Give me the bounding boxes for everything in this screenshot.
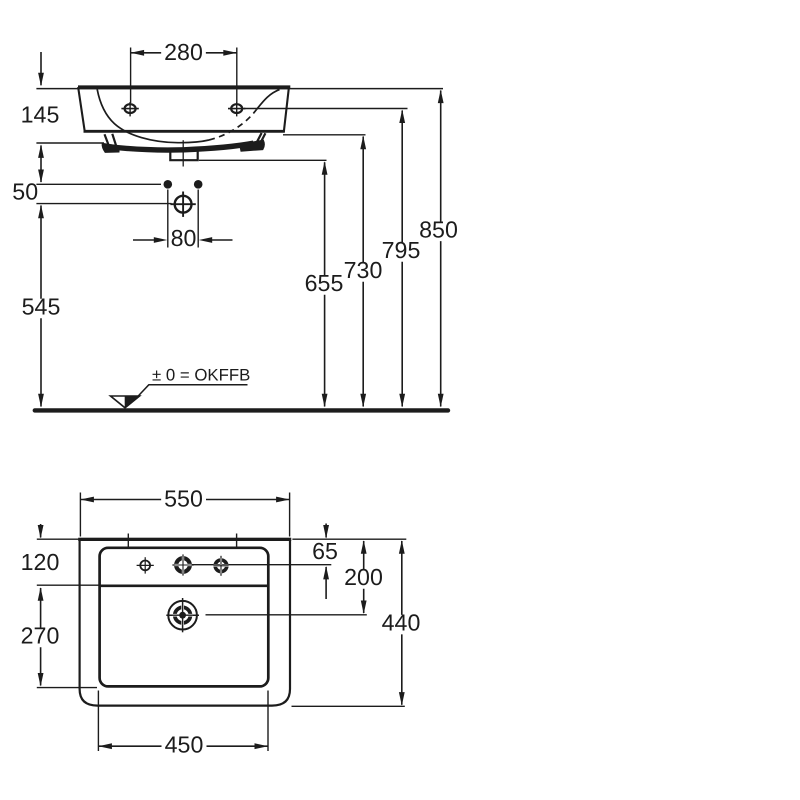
dim 850 line bbox=[438, 90, 444, 408]
dim 80 arrows bbox=[133, 237, 233, 243]
ext line 730 level bbox=[283, 134, 366, 136]
ledge hole middle bbox=[172, 554, 193, 575]
plan inner rim bbox=[100, 548, 269, 687]
ext line fixing dots level bbox=[36, 183, 161, 185]
ledge hole right bbox=[214, 556, 229, 576]
svg-text:80: 80 bbox=[171, 225, 197, 251]
plan ledge line bbox=[101, 584, 268, 587]
svg-text:50: 50 bbox=[12, 179, 38, 205]
dim 80 text bbox=[171, 225, 197, 251]
dim 850 text bbox=[416, 217, 461, 243]
dim 200 text bbox=[341, 564, 386, 590]
plan outer outline bbox=[78, 539, 291, 706]
dim 795 text bbox=[379, 237, 424, 263]
basin front outline bbox=[78, 87, 290, 131]
ext line underside level bbox=[36, 142, 104, 144]
plan ledge ext left bbox=[37, 584, 99, 586]
dim 550 extension lines bbox=[80, 493, 289, 537]
bowl inner curve dashed bbox=[209, 110, 257, 141]
plan fixing tick right bbox=[236, 534, 238, 548]
right wall bracket bbox=[240, 133, 266, 151]
svg-text:730: 730 bbox=[344, 257, 383, 283]
ext line 655 level bbox=[199, 159, 327, 161]
plan fixing tick left bbox=[127, 534, 129, 548]
svg-text:65: 65 bbox=[312, 538, 338, 564]
ext line hole row bbox=[191, 564, 332, 566]
dim 550 line bbox=[80, 497, 289, 503]
basin underside band bbox=[105, 143, 254, 150]
svg-text:450: 450 bbox=[165, 732, 204, 758]
plan inner-bottom ext left bbox=[37, 687, 97, 689]
svg-text:850: 850 bbox=[419, 217, 458, 243]
dim 145 arrows bbox=[38, 52, 44, 183]
dim 545 text bbox=[19, 294, 64, 320]
dim 730 text bbox=[341, 257, 386, 283]
dim 545 line bbox=[38, 205, 44, 407]
floor line bbox=[35, 408, 448, 412]
dim 65 arrows bbox=[323, 524, 329, 600]
dim 550 text bbox=[161, 486, 206, 512]
dim 450 text bbox=[162, 732, 207, 758]
drain outlet box bbox=[170, 148, 197, 161]
bowl inner curve right end bbox=[257, 90, 280, 110]
dim 280 text bbox=[161, 39, 206, 65]
plan bottom edge ext right bbox=[292, 705, 405, 707]
svg-text:795: 795 bbox=[382, 237, 421, 263]
dim 120 text bbox=[21, 549, 60, 575]
bowl inner curve solid bbox=[97, 89, 209, 142]
tap-hole left front bbox=[121, 102, 138, 116]
dim 440 line bbox=[399, 540, 405, 705]
dim 145 text bbox=[18, 102, 63, 128]
dim 120 arrow bbox=[38, 524, 44, 539]
floor level text bbox=[152, 366, 250, 385]
svg-text:440: 440 bbox=[382, 610, 421, 636]
ext line siphon level bbox=[36, 203, 171, 205]
dim 280 line bbox=[131, 50, 237, 56]
drain centreline bbox=[182, 140, 184, 166]
tap-hole right front bbox=[228, 102, 245, 116]
svg-text:545: 545 bbox=[22, 294, 61, 320]
dim 50 text bbox=[12, 179, 38, 205]
dim 270 line bbox=[38, 587, 44, 686]
dim 270 text bbox=[18, 623, 63, 649]
dim 80 extension lines bbox=[168, 190, 198, 248]
dim 450 extension lines bbox=[98, 691, 268, 752]
ledge hole left bbox=[137, 557, 154, 573]
siphon connection symbol bbox=[170, 192, 195, 217]
dim 440 text bbox=[379, 610, 424, 636]
svg-text:550: 550 bbox=[164, 486, 203, 512]
dim 795 line bbox=[399, 110, 405, 408]
ext line faucet row bbox=[206, 614, 367, 616]
floor level underline and leader bbox=[138, 385, 247, 396]
svg-text:280: 280 bbox=[164, 39, 203, 65]
fixing hole dots bbox=[164, 180, 203, 189]
dim 655 line bbox=[322, 161, 328, 407]
dim 730 line bbox=[360, 136, 366, 407]
svg-text:145: 145 bbox=[21, 102, 60, 128]
dim 280 extension lines bbox=[131, 48, 237, 104]
left wall bracket bbox=[102, 134, 119, 153]
wall line / top rim extension bbox=[36, 88, 443, 90]
svg-text:120: 120 bbox=[21, 549, 60, 575]
svg-text:655: 655 bbox=[305, 270, 344, 296]
plan top edge ext right bbox=[292, 538, 406, 540]
svg-text:270: 270 bbox=[21, 623, 60, 649]
plan top edge ext left bbox=[37, 538, 79, 540]
faucet hole bbox=[166, 598, 199, 632]
svg-text:± 0 = OKFFB: ± 0 = OKFFB bbox=[152, 366, 250, 385]
dim 655 text bbox=[302, 270, 347, 296]
dim 65 text bbox=[312, 538, 338, 564]
svg-text:200: 200 bbox=[344, 564, 383, 590]
level symbol triangle bbox=[111, 396, 140, 408]
dim 200 line bbox=[361, 540, 367, 614]
dim 450 line bbox=[98, 743, 268, 749]
ext line 795 level bbox=[244, 108, 408, 110]
